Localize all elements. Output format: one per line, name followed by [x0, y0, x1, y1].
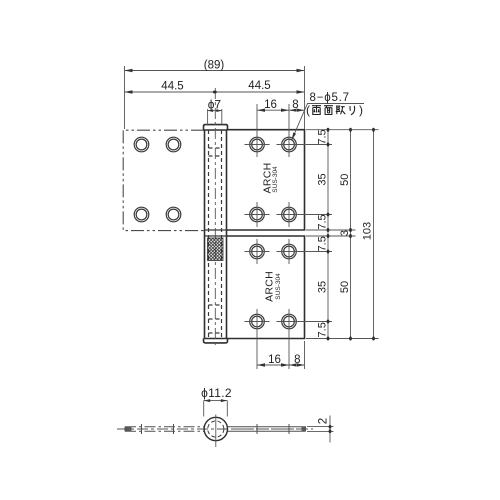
knuckle inner dashed circle [208, 421, 224, 437]
phi7 dim line [208, 110, 222, 112]
right leaf hole B7 [250, 314, 265, 329]
bar center line [117, 428, 313, 430]
right leaf lower plate [227, 236, 305, 339]
bar outline left (phantom leaf edge-on) [125, 427, 204, 431]
ext row4 [297, 321, 332, 323]
dim line 44.5/44.5 [125, 91, 305, 93]
ext right edge down [304, 341, 306, 369]
hole B7 centerlines [245, 309, 270, 345]
arrows 44.5 [125, 90, 305, 93]
knuckle hidden pin lines [209, 130, 222, 338]
svg-text:ϕ11.2: ϕ11.2 [201, 386, 232, 400]
bar tick marks [142, 424, 290, 434]
knuckle top cap [204, 125, 228, 130]
knuckle body [204, 130, 228, 339]
svg-text:8−ϕ5.7: 8−ϕ5.7 [310, 92, 350, 104]
ext gap upper [306, 229, 356, 231]
ext row1 [297, 144, 332, 146]
svg-text:50: 50 [339, 174, 351, 186]
kana ri [350, 106, 355, 115]
gap line upper across knuckle [205, 229, 227, 231]
dim line (89) [125, 70, 305, 72]
phi11.2 arrows [204, 399, 228, 402]
svg-text:(: ( [306, 103, 310, 117]
svg-text:ARCH: ARCH [264, 271, 276, 302]
extension line left [124, 66, 126, 129]
svg-text:8: 8 [294, 354, 300, 366]
svg-text:SUS-304: SUS-304 [275, 273, 282, 300]
svg-text:): ) [359, 103, 363, 117]
left leaf hole A4 [166, 207, 181, 222]
right leaf upper plate [227, 130, 305, 230]
hole B5 centerlines [245, 239, 270, 264]
kanji ryou [312, 106, 321, 115]
svg-text:ϕ7: ϕ7 [208, 98, 222, 112]
svg-text:7.5: 7.5 [316, 236, 328, 251]
knuckle bottom cap [204, 339, 228, 343]
ticks line A [327, 128, 330, 341]
svg-text:50: 50 [339, 281, 351, 293]
dim line B [350, 130, 352, 339]
dim line 16/8 bottom [257, 364, 305, 366]
right leaf hole B2 [282, 137, 297, 152]
hole B1 centerlines [245, 104, 270, 157]
right leaf hole B1 [250, 137, 265, 152]
hole B3 centerlines [245, 202, 270, 227]
dim line C [373, 130, 375, 339]
ext hole B7 down [256, 345, 258, 369]
bar hidden mid line right [232, 428, 303, 430]
arrows (89) [125, 69, 305, 72]
svg-text:7.5: 7.5 [316, 322, 328, 337]
phi11.2 extension lines [204, 401, 228, 417]
bar right end cap [302, 427, 306, 431]
svg-text:44.5: 44.5 [248, 80, 270, 92]
knuckle circle centerline vertical [215, 415, 217, 448]
extension line right [304, 66, 306, 129]
svg-text:3: 3 [339, 230, 351, 236]
thickness arrows [329, 425, 332, 433]
right leaf hole B4 [282, 207, 297, 222]
svg-text:103: 103 [362, 222, 374, 240]
right leaf hole B6 [282, 244, 297, 259]
svg-text:44.5: 44.5 [161, 81, 183, 93]
svg-text:35: 35 [317, 173, 329, 185]
hole B4 centerlines [277, 202, 302, 227]
knuckle center line [214, 88, 216, 348]
leader arrow [292, 133, 297, 141]
left leaf hole A3 [134, 207, 149, 222]
midpoint dot 44.5 [213, 91, 217, 94]
phi7 extension lines [208, 109, 222, 126]
knuckle hidden internal steps [209, 148, 222, 333]
left leaf hole A1 [134, 137, 149, 152]
svg-text:35: 35 [317, 281, 329, 293]
svg-text:2: 2 [318, 418, 330, 424]
svg-text:7.5: 7.5 [316, 129, 328, 144]
kanji tori [336, 106, 346, 114]
ext row3 [297, 251, 332, 253]
knuckle circle [204, 417, 227, 440]
thickness ext lines [307, 427, 334, 432]
arrows 16/8 bottom [257, 363, 305, 366]
ext top edge [306, 129, 379, 131]
ext hole B8 down [288, 345, 290, 369]
svg-text:16: 16 [268, 354, 281, 366]
ext row2 [297, 214, 332, 216]
knurled pin section (hatch) [208, 238, 224, 261]
svg-text:(89): (89) [204, 60, 225, 72]
svg-text:16: 16 [264, 99, 277, 111]
hole B2 centerlines [277, 104, 302, 157]
svg-text:8: 8 [292, 99, 298, 111]
hole B8 centerlines [277, 309, 302, 345]
bar left end cap [126, 427, 132, 432]
ticks line B [349, 128, 352, 341]
dim line 16/8 [257, 109, 305, 111]
arrows 16/8 [257, 109, 305, 112]
svg-text:SUS-304: SUS-304 [272, 166, 279, 193]
right leaf hole B3 [250, 207, 265, 222]
gap line lower across knuckle [205, 235, 227, 237]
left leaf (phantom) outline [123, 130, 204, 230]
ext bottom edge [306, 338, 379, 340]
left leaf hole A2 [166, 137, 181, 152]
bar outline right (leaf edge-on) [227, 427, 306, 432]
phi11.2 dim line [204, 400, 228, 402]
ext gap lower [306, 235, 356, 237]
kanji men [324, 106, 333, 115]
right leaf hole B5 [250, 244, 265, 259]
right leaf hole B8 [282, 314, 297, 329]
ticks line C [372, 128, 375, 341]
leader 8-phi5.7 [292, 104, 365, 141]
phi7 arrows [208, 109, 222, 112]
thickness dim line [329, 416, 331, 443]
dim line A [327, 130, 329, 339]
hole B6 centerlines [277, 239, 302, 264]
svg-text:7.5: 7.5 [316, 214, 328, 229]
